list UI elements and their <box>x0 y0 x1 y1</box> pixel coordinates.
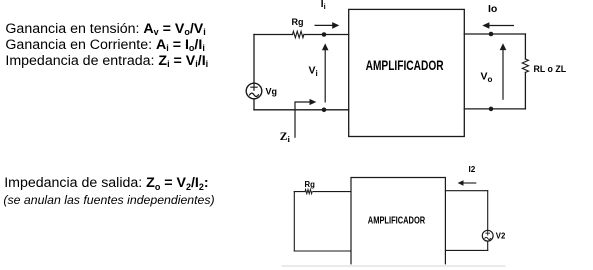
svg-text:Zi: Zi <box>280 131 291 144</box>
svg-text:I2: I2 <box>469 165 476 174</box>
svg-text:AMPLIFICADOR: AMPLIFICADOR <box>368 216 426 227</box>
wire: Vg bottom lead <box>253 99 255 110</box>
wire: U2 output top wire <box>445 190 487 192</box>
svg-text:Vo: Vo <box>481 71 493 85</box>
voltage source V2 <box>482 230 493 241</box>
formula text: output impedance <box>4 175 208 191</box>
resistor RL <box>522 59 528 72</box>
wire: output bottom wire <box>464 108 525 110</box>
svg-text:V2: V2 <box>496 232 506 241</box>
wire: U2 top input wire <box>294 191 351 193</box>
wire: Vg top lead <box>253 35 255 84</box>
wire: U2 left loop left side <box>293 192 295 251</box>
svg-text:Io: Io <box>488 3 497 15</box>
resistor Rg (U2 input) <box>305 190 312 194</box>
node: output bottom junction <box>489 107 494 112</box>
voltage arrow Vi <box>324 49 326 103</box>
voltage source Vg <box>246 83 262 99</box>
voltage arrow Vo <box>502 49 504 100</box>
node: input bottom junction <box>322 108 327 113</box>
current arrow Io <box>489 25 515 27</box>
current arrow I2 <box>463 182 477 184</box>
wire: faint page edge line <box>282 265 505 267</box>
svg-text:Rg: Rg <box>292 17 304 27</box>
wire: top input wire <box>254 34 349 36</box>
resistor Rg <box>293 31 304 37</box>
wire: load bottom lead <box>524 72 526 109</box>
formula text: voltage gain / current gain / input impedance <box>5 21 208 69</box>
wire: load top lead <box>524 34 526 59</box>
svg-text:Vi: Vi <box>309 65 318 79</box>
wire: bottom input wire <box>254 109 349 111</box>
svg-text:RL o ZL: RL o ZL <box>534 64 567 74</box>
svg-text:Rg: Rg <box>305 180 316 189</box>
amplifier U1 box <box>349 9 465 136</box>
wire: amplifier U2 box sides <box>351 178 445 264</box>
wire: V2 top lead <box>487 191 489 231</box>
svg-text:Ii: Ii <box>321 0 326 11</box>
node: input top junction <box>322 32 327 37</box>
svg-text:AMPLIFICADOR: AMPLIFICADOR <box>366 58 444 73</box>
node: output top junction <box>489 32 494 37</box>
impedance arrow Zi <box>295 102 311 138</box>
svg-text:Vg: Vg <box>266 86 278 96</box>
wire: U2 bottom input wire <box>294 250 351 252</box>
current arrow Ii <box>315 24 334 26</box>
note text: sources nulled <box>3 192 214 208</box>
wire: V2 bottom lead <box>487 241 489 250</box>
wire: output top wire <box>464 33 525 35</box>
wire: U2 output bottom wire <box>445 249 487 251</box>
